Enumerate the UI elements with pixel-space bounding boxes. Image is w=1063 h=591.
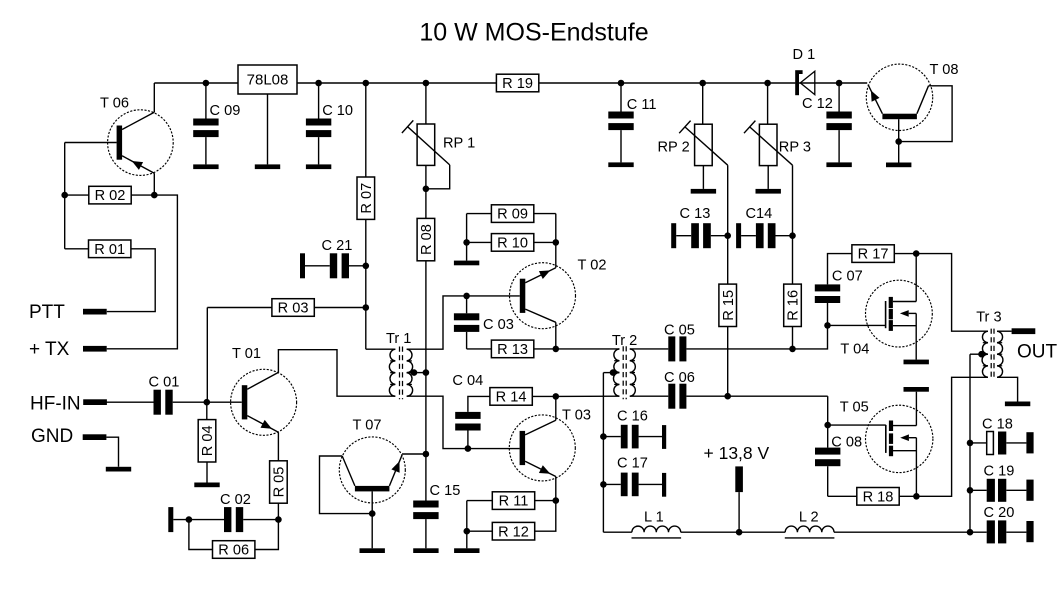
node R02 left <box>61 192 68 199</box>
node C13-RP2 wiper <box>724 232 731 239</box>
transistor T02 <box>467 258 607 329</box>
resistor R11 <box>467 492 556 510</box>
resistor R15 <box>719 236 737 397</box>
svg-text:PTT: PTT <box>29 302 65 323</box>
svg-text:Tr 3: Tr 3 <box>976 309 1001 325</box>
svg-text:Tr 2: Tr 2 <box>612 333 637 349</box>
node C02 left <box>186 516 193 523</box>
node R10 right <box>553 239 560 246</box>
node C20 left / bottom rail end <box>967 529 974 536</box>
potentiometer RP2 <box>658 83 728 236</box>
resistor R02 <box>65 186 155 204</box>
resistor R01 <box>65 240 131 258</box>
transistor T08 <box>866 62 958 130</box>
node C21-R07 <box>363 263 370 270</box>
node R18 right / T05 source <box>913 493 920 500</box>
svg-text:R 12: R 12 <box>498 524 529 540</box>
svg-text:RP 3: RP 3 <box>779 140 811 156</box>
svg-text:C 05: C 05 <box>664 322 695 338</box>
node R14 right / T03 collector <box>553 393 560 400</box>
node R17 right <box>913 250 920 257</box>
capacitor C13 <box>671 206 728 248</box>
resistor R10 <box>467 234 556 252</box>
wire Tr1 secondary bottom to T03 base <box>407 396 520 448</box>
node R03-R07 <box>363 304 370 311</box>
wire Tr2 tap to bottom rail <box>602 373 604 533</box>
node R13 right <box>553 346 560 353</box>
svg-text:R 14: R 14 <box>496 390 527 406</box>
node T02 base <box>463 293 470 300</box>
svg-text:C 15: C 15 <box>430 483 461 499</box>
node rail-C09 <box>203 80 210 87</box>
wire R01 to PTT <box>107 249 155 312</box>
capacitor C19 <box>970 464 1034 502</box>
ground Tr3 <box>1005 402 1030 407</box>
wire R17 node to Tr3 primary top <box>916 254 988 332</box>
node T07 base-collector tie <box>369 510 376 517</box>
svg-text:R 07: R 07 <box>359 183 375 214</box>
terminal HF-IN <box>30 393 107 414</box>
capacitor C08 <box>815 425 862 496</box>
mosfet T05 <box>828 392 933 497</box>
capacitor C10 <box>306 83 353 164</box>
ground C11 <box>608 162 633 167</box>
node Tr1 tap junction <box>423 369 430 376</box>
svg-text:R 08: R 08 <box>419 224 435 255</box>
terminal OUT <box>1012 328 1058 362</box>
capacitor C02 <box>168 492 278 532</box>
svg-text:+ TX: + TX <box>29 339 70 360</box>
svg-text:C 16: C 16 <box>617 408 648 424</box>
svg-text:C 19: C 19 <box>984 464 1015 480</box>
node T04 gate <box>824 322 831 329</box>
capacitor C11 <box>608 83 656 162</box>
transistor T07 <box>339 418 405 549</box>
svg-text:L 1: L 1 <box>644 510 664 526</box>
ground RP2 <box>691 189 716 194</box>
svg-text:C 18: C 18 <box>982 417 1013 433</box>
svg-text:R 10: R 10 <box>497 236 528 252</box>
node R12 left <box>464 528 471 535</box>
wire T01 collector to Tr1 primary bottom <box>278 350 395 397</box>
diode D1 <box>793 47 816 95</box>
capacitor C09 <box>193 83 240 164</box>
svg-text:R 18: R 18 <box>863 489 894 505</box>
svg-text:OUT: OUT <box>1017 342 1058 363</box>
resistor R12 <box>467 501 556 541</box>
svg-text:C 08: C 08 <box>831 434 862 450</box>
resistor R07 <box>357 83 375 349</box>
ground C09 <box>193 164 218 169</box>
svg-text:HF-IN: HF-IN <box>30 393 81 414</box>
svg-text:C 09: C 09 <box>210 103 241 119</box>
node T05 gate <box>824 422 831 429</box>
svg-text:+ 13,8 V: + 13,8 V <box>704 443 770 463</box>
supply stub T05 drain <box>904 387 929 392</box>
transformer Tr2 <box>612 333 637 399</box>
resistor R06 <box>189 520 279 559</box>
capacitor C14 <box>736 206 792 248</box>
svg-text:R 05: R 05 <box>272 467 288 498</box>
wire R18 node to Tr3 primary bottom <box>916 377 988 496</box>
node C17 left <box>600 481 607 488</box>
ground C12 <box>826 162 851 167</box>
inductor L2 <box>785 510 835 538</box>
svg-text:T 01: T 01 <box>232 346 261 362</box>
terminal + TX <box>29 339 107 360</box>
svg-text:C 20: C 20 <box>984 505 1015 521</box>
node R15 bottom <box>724 393 731 400</box>
resistor R03 <box>207 299 365 317</box>
svg-text:R 01: R 01 <box>94 242 125 258</box>
capacitor C05 <box>630 322 793 361</box>
node C18 left <box>967 440 974 447</box>
wire R03 to HF node <box>206 308 208 403</box>
ground C10 <box>306 164 331 169</box>
capacitor C07 <box>815 268 863 325</box>
capacitor C06 <box>630 370 828 409</box>
wire T06 collector to rail <box>153 83 155 112</box>
wire C05 to T04 gate <box>793 325 828 349</box>
wire Tr3 secondary bottom to ground <box>997 377 1018 401</box>
ground RP3 <box>756 189 781 194</box>
wire top supply rail <box>154 82 867 84</box>
ground T07 <box>360 548 385 553</box>
terminal PTT <box>29 302 107 323</box>
svg-text:R 06: R 06 <box>218 543 249 559</box>
svg-text:C 01: C 01 <box>149 375 180 391</box>
node rail-C11 <box>618 80 625 87</box>
transformer Tr3 <box>976 309 1003 380</box>
svg-text:T 04: T 04 <box>840 342 869 358</box>
mosfet T04 <box>828 254 933 360</box>
wire T02 collector down <box>555 322 557 349</box>
node T08 base-collector tie <box>895 138 902 145</box>
supply +13.8V terminal <box>704 443 770 532</box>
voltage regulator 78L08 <box>238 65 297 94</box>
resistor R05 <box>270 461 288 520</box>
node Tr2 tap <box>610 369 617 376</box>
svg-text:T 03: T 03 <box>562 407 591 423</box>
node C04-T03 base <box>465 445 472 452</box>
wire Tr3 tap <box>970 353 988 355</box>
ground R04 <box>194 483 219 488</box>
wire T07 right to node <box>402 453 426 455</box>
transformer Tr1 <box>386 331 413 399</box>
svg-text:R 16: R 16 <box>786 290 802 321</box>
svg-text:R 15: R 15 <box>721 290 737 321</box>
svg-text:C 17: C 17 <box>617 456 648 472</box>
wire T08 collector loop to base <box>899 86 952 142</box>
svg-text:C 03: C 03 <box>483 317 514 333</box>
resistor R19 <box>496 74 538 92</box>
node supply-bottom rail <box>736 529 743 536</box>
node rail-RP2 <box>699 80 706 87</box>
wire T06 emitter to R02 node <box>153 173 155 195</box>
svg-text:C14: C14 <box>746 206 773 222</box>
node Tr3 tap <box>978 351 985 358</box>
wire R14 node to Tr2 primary bottom <box>556 395 620 397</box>
resistor R09 <box>467 205 556 223</box>
resistor R08 <box>417 218 435 500</box>
svg-text:C 10: C 10 <box>322 103 353 119</box>
ground C15 <box>413 548 438 553</box>
resistor R17 <box>828 245 917 285</box>
svg-text:RP 1: RP 1 <box>443 136 475 152</box>
svg-text:R 17: R 17 <box>858 247 889 263</box>
node R16 bottom <box>789 346 796 353</box>
svg-text:C 11: C 11 <box>627 97 657 113</box>
svg-text:Tr 1: Tr 1 <box>386 331 411 347</box>
ground T08 <box>886 163 911 168</box>
wire R13 node to Tr2 primary top <box>556 348 620 350</box>
capacitor C03 <box>454 296 514 349</box>
svg-text:C 21: C 21 <box>322 238 353 254</box>
svg-text:T 07: T 07 <box>353 418 382 434</box>
svg-text:R 03: R 03 <box>278 301 309 317</box>
node rail-RP1 <box>423 80 430 87</box>
svg-text:RP 2: RP 2 <box>658 140 690 156</box>
transistor T01 <box>207 346 297 436</box>
node R05-C02 <box>275 516 282 523</box>
resistor R18 <box>828 488 917 506</box>
transistor T06 <box>65 96 173 176</box>
svg-text:R 19: R 19 <box>502 76 533 92</box>
potentiometer RP1 <box>402 83 475 219</box>
wire T08 base to ground <box>898 119 900 162</box>
wire T01 emitter to R05 <box>277 432 279 461</box>
svg-text:T 08: T 08 <box>930 62 959 78</box>
wire C06 to T05 gate <box>827 396 829 425</box>
svg-text:L 2: L 2 <box>799 510 819 526</box>
wire 78L08 ground pin <box>267 94 269 164</box>
node T07 junction <box>423 451 430 458</box>
svg-text:R 13: R 13 <box>497 342 528 358</box>
node C14-RP3 wiper <box>789 232 796 239</box>
capacitor C04 <box>452 373 483 448</box>
node R02 right / T06 emitter <box>151 192 158 199</box>
svg-text:C 12: C 12 <box>802 96 833 112</box>
ground 78L08 <box>255 164 280 169</box>
resistor R13 <box>467 340 556 358</box>
node Tr1 tap <box>411 369 418 376</box>
svg-text:C 07: C 07 <box>832 268 863 284</box>
svg-text:GND: GND <box>31 426 73 447</box>
svg-text:R 11: R 11 <box>499 494 529 510</box>
ground T04 source <box>904 360 929 365</box>
svg-text:T 05: T 05 <box>840 400 869 416</box>
svg-text:C 06: C 06 <box>664 370 695 386</box>
svg-text:78L08: 78L08 <box>247 72 289 89</box>
transistor T03 <box>509 396 591 500</box>
svg-text:C 04: C 04 <box>452 373 483 389</box>
capacitor C12 <box>802 83 852 162</box>
capacitor C01 <box>105 375 206 415</box>
svg-text:T 02: T 02 <box>578 258 607 274</box>
wire Tr1 primary top <box>366 348 396 350</box>
node T01 base <box>204 399 211 406</box>
ground R09/R10 <box>454 261 479 266</box>
capacitor C21 <box>300 238 366 278</box>
wire Tr1 center tap <box>407 372 426 374</box>
svg-text:10 W MOS-Endstufe: 10 W MOS-Endstufe <box>419 19 648 47</box>
node rail-C12 <box>836 80 843 87</box>
wire R09/R10 right to T02 <box>555 214 557 268</box>
svg-text:R 04: R 04 <box>200 425 216 456</box>
node C19 left <box>967 487 974 494</box>
resistor R16 <box>784 236 802 349</box>
node rail-C10 <box>315 80 322 87</box>
wire Tr3 tap down to C18-C20 <box>969 354 971 532</box>
resistor R04 <box>198 402 216 482</box>
title <box>419 19 648 47</box>
svg-text:C 13: C 13 <box>680 206 711 222</box>
inductor L1 <box>632 510 682 538</box>
capacitor C15 <box>413 483 460 549</box>
wire T07 left loop <box>320 456 373 514</box>
wire R11/R12 left to ground <box>466 501 468 549</box>
node R10 left <box>463 239 470 246</box>
node RP1 wiper <box>423 186 430 193</box>
terminal GND <box>31 426 106 447</box>
node C16 left <box>600 433 607 440</box>
node R11 right / T03 emitter <box>553 497 560 504</box>
wire Tr3 secondary top to OUT <box>997 330 1012 332</box>
resistor R14 <box>468 388 556 412</box>
wire Tr2 tap <box>603 372 619 374</box>
wire GND to ground <box>106 437 118 467</box>
capacitor C17 <box>603 456 666 497</box>
svg-text:T 06: T 06 <box>100 96 129 112</box>
svg-text:R 02: R 02 <box>95 188 126 204</box>
svg-text:C 02: C 02 <box>220 492 251 508</box>
ground GND <box>106 467 131 472</box>
ground R11/R12 <box>454 548 479 553</box>
potentiometer RP3 <box>744 83 811 236</box>
wire R02-right to +TX riser <box>107 195 178 349</box>
wire Tr1 secondary top to T02 base node <box>407 296 467 349</box>
wire T06 base left chain <box>64 143 66 249</box>
node rail-RP3 <box>764 80 771 87</box>
wire R09/R10 left to ground <box>466 214 468 261</box>
capacitor C16 <box>603 408 666 449</box>
svg-text:D 1: D 1 <box>793 47 816 63</box>
capacitor C20 <box>970 505 1034 543</box>
wire bottom rail <box>603 531 970 533</box>
node rail-R07 <box>363 80 370 87</box>
capacitor C18 <box>970 417 1034 455</box>
svg-text:R 09: R 09 <box>497 207 528 223</box>
